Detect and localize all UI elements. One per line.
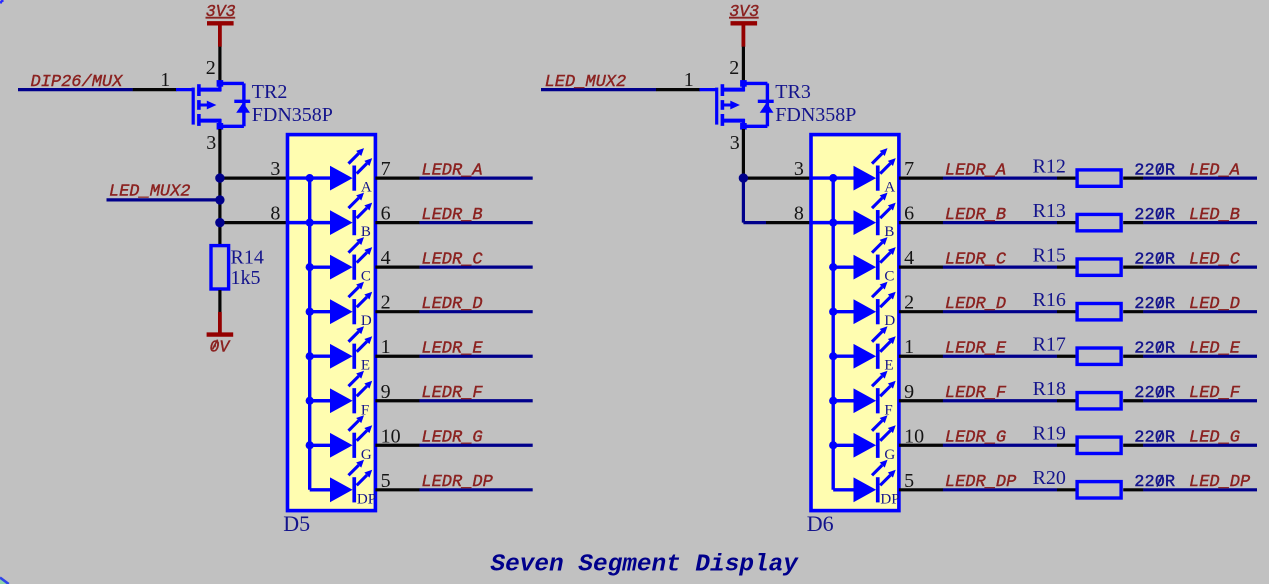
svg-text:DIP26/MUX: DIP26/MUX [31, 73, 124, 92]
svg-text:LED_F: LED_F [1189, 384, 1241, 403]
svg-text:LEDR_F: LEDR_F [945, 384, 1007, 403]
svg-text:R14: R14 [231, 246, 264, 268]
svg-text:LED_DP: LED_DP [1189, 473, 1251, 492]
svg-text:8: 8 [270, 202, 280, 224]
svg-text:LEDR_E: LEDR_E [421, 339, 483, 358]
svg-text:R15: R15 [1033, 245, 1066, 267]
svg-text:R18: R18 [1033, 378, 1066, 400]
svg-text:LEDR_B: LEDR_B [945, 206, 1006, 225]
svg-text:LEDR_A: LEDR_A [421, 161, 482, 180]
svg-text:LEDR_DP: LEDR_DP [945, 473, 1017, 492]
svg-text:R20: R20 [1033, 467, 1066, 489]
svg-text:LEDR_B: LEDR_B [421, 206, 482, 225]
svg-text:E: E [884, 358, 893, 374]
svg-text:220R: 220R [1134, 206, 1175, 225]
svg-text:LED_B: LED_B [1189, 206, 1240, 225]
svg-text:E: E [361, 358, 370, 374]
svg-text:220R: 220R [1134, 339, 1175, 358]
svg-text:220R: 220R [1134, 384, 1175, 403]
svg-text:3: 3 [794, 158, 804, 180]
svg-text:220R: 220R [1134, 161, 1175, 180]
svg-text:LED_A: LED_A [1189, 161, 1240, 180]
svg-text:1: 1 [684, 69, 694, 91]
svg-text:D5: D5 [283, 511, 310, 536]
svg-text:F: F [884, 402, 892, 418]
svg-text:LEDR_G: LEDR_G [421, 428, 482, 447]
svg-text:LEDR_DP: LEDR_DP [421, 473, 493, 492]
svg-text:LEDR_D: LEDR_D [945, 295, 1006, 314]
svg-text:FDN358P: FDN358P [775, 104, 856, 126]
svg-text:LED_G: LED_G [1189, 428, 1240, 447]
svg-text:DP: DP [880, 491, 899, 507]
svg-text:FDN358P: FDN358P [252, 104, 333, 126]
svg-text:2: 2 [206, 57, 216, 79]
svg-text:1k5: 1k5 [231, 267, 261, 289]
svg-text:3: 3 [270, 158, 280, 180]
svg-text:LED_MUX2: LED_MUX2 [109, 183, 191, 202]
svg-text:LEDR_E: LEDR_E [945, 339, 1007, 358]
svg-text:R19: R19 [1033, 423, 1066, 445]
svg-text:LEDR_A: LEDR_A [945, 161, 1006, 180]
svg-text:R12: R12 [1033, 156, 1066, 178]
svg-text:LEDR_D: LEDR_D [421, 295, 482, 314]
svg-text:220R: 220R [1134, 250, 1175, 269]
svg-text:LED_C: LED_C [1189, 250, 1241, 269]
svg-text:2: 2 [729, 57, 739, 79]
svg-text:220R: 220R [1134, 473, 1175, 492]
svg-text:D6: D6 [807, 511, 834, 536]
svg-text:TR3: TR3 [775, 81, 811, 103]
svg-text:LED_E: LED_E [1189, 339, 1241, 358]
svg-text:R13: R13 [1033, 200, 1066, 222]
svg-text:F: F [361, 402, 369, 418]
svg-text:8: 8 [794, 202, 804, 224]
svg-text:R17: R17 [1033, 334, 1066, 356]
svg-text:DP: DP [357, 491, 376, 507]
svg-text:LED_D: LED_D [1189, 295, 1240, 314]
svg-text:R16: R16 [1033, 289, 1066, 311]
svg-text:3: 3 [730, 132, 740, 154]
svg-text:LEDR_C: LEDR_C [945, 250, 1007, 269]
svg-text:TR2: TR2 [252, 81, 288, 103]
svg-text:LEDR_C: LEDR_C [421, 250, 483, 269]
svg-text:Seven Segment Display: Seven Segment Display [491, 551, 800, 578]
svg-text:220R: 220R [1134, 428, 1175, 447]
svg-text:3: 3 [206, 132, 216, 154]
svg-text:220R: 220R [1134, 295, 1175, 314]
svg-text:LEDR_F: LEDR_F [421, 384, 483, 403]
svg-text:1: 1 [160, 69, 170, 91]
svg-text:LED_MUX2: LED_MUX2 [545, 73, 627, 92]
svg-text:LEDR_G: LEDR_G [945, 428, 1006, 447]
